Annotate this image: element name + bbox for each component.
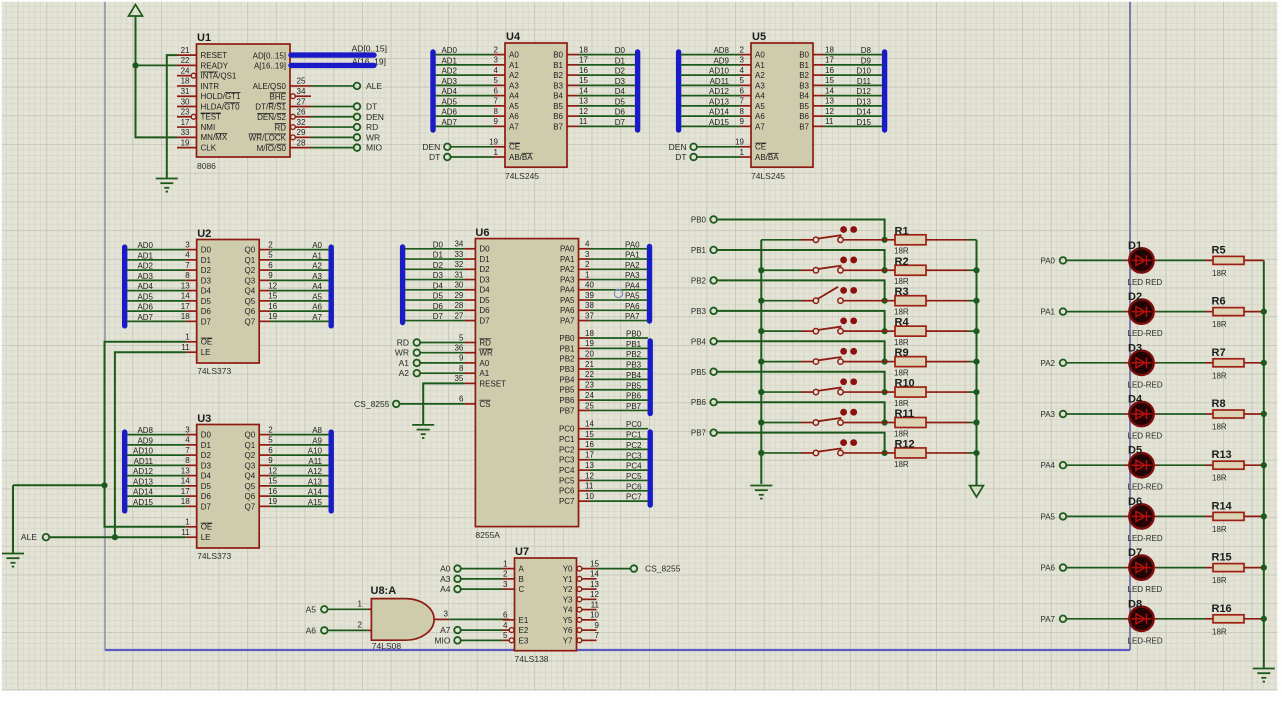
terminal DT (U4) <box>429 152 451 162</box>
svg-text:U1: U1 <box>197 32 211 44</box>
svg-text:74LS08: 74LS08 <box>372 641 402 651</box>
svg-text:CE: CE <box>755 143 766 152</box>
svg-text:18: 18 <box>579 45 588 54</box>
svg-text:2: 2 <box>268 425 273 434</box>
svg-text:AD15: AD15 <box>133 498 154 507</box>
svg-text:PB5: PB5 <box>559 386 575 395</box>
svg-text:18: 18 <box>825 45 834 54</box>
svg-text:A7: A7 <box>509 122 519 131</box>
svg-text:PC5: PC5 <box>626 472 642 481</box>
svg-text:18R: 18R <box>1212 627 1227 636</box>
svg-text:AD12: AD12 <box>709 87 730 96</box>
svg-text:R4: R4 <box>895 317 910 329</box>
svg-text:AD5: AD5 <box>137 292 153 301</box>
svg-text:AD14: AD14 <box>709 108 730 117</box>
svg-text:D1: D1 <box>201 441 212 450</box>
terminal ALE <box>354 81 383 91</box>
bus AD0..AD7 (U4 left) <box>430 52 435 130</box>
svg-text:Q6: Q6 <box>245 307 256 316</box>
wire MIO to U7 <box>461 639 503 641</box>
wires AD0-AD7 bus to U4 <box>435 46 494 127</box>
svg-text:4: 4 <box>185 251 190 260</box>
ground arrow (switch rail output) <box>970 486 984 497</box>
IC U5 (74LS245) body <box>751 31 813 181</box>
svg-text:D0: D0 <box>433 240 444 249</box>
svg-text:DEN: DEN <box>669 142 687 152</box>
svg-text:D10: D10 <box>856 67 871 76</box>
svg-text:PB6: PB6 <box>559 396 575 405</box>
svg-text:8086: 8086 <box>197 161 216 171</box>
svg-text:PB6: PB6 <box>626 392 642 401</box>
svg-text:6: 6 <box>740 86 745 95</box>
svg-text:D15: D15 <box>856 118 871 127</box>
U1 right pins (stubs, numbers, names) <box>249 77 311 153</box>
svg-text:PB7: PB7 <box>691 429 707 438</box>
svg-text:A1: A1 <box>399 358 410 368</box>
svg-text:AD10: AD10 <box>133 447 154 456</box>
terminal PB4 (switch bank) <box>691 337 717 346</box>
svg-text:A10: A10 <box>308 447 323 456</box>
svg-text:Y5: Y5 <box>563 616 573 625</box>
U1 bus pin names <box>253 51 286 70</box>
svg-text:AD6: AD6 <box>441 108 457 117</box>
svg-text:OE: OE <box>201 523 213 532</box>
U1 pins (stubs, numbers, names) <box>177 46 241 153</box>
bus PB[0..7] (U6 right) <box>648 341 653 414</box>
terminal PA3 (LED bank) <box>1040 410 1066 419</box>
svg-text:74LS245: 74LS245 <box>505 171 539 181</box>
sheet border (right edge) <box>1129 0 1131 650</box>
switch SW2 (PB1) <box>761 257 884 273</box>
svg-text:A6: A6 <box>509 112 519 121</box>
svg-text:1: 1 <box>358 600 363 609</box>
svg-text:14: 14 <box>579 86 588 95</box>
svg-text:D7: D7 <box>433 312 444 321</box>
svg-text:6: 6 <box>268 261 273 270</box>
resistor R14 18R <box>1154 500 1264 534</box>
svg-text:R3: R3 <box>895 286 909 298</box>
svg-text:2: 2 <box>585 260 590 269</box>
svg-text:PB2: PB2 <box>691 276 707 285</box>
terminal A7 (U7) <box>440 625 461 635</box>
svg-text:B1: B1 <box>799 61 809 70</box>
terminal RD (U6) <box>397 338 420 348</box>
svg-text:AD0: AD0 <box>137 241 153 250</box>
wire DT to U5 AB/BA <box>697 156 740 158</box>
svg-text:14: 14 <box>590 570 599 579</box>
terminal A3 (U7) <box>440 574 461 584</box>
svg-text:A2: A2 <box>312 262 322 271</box>
svg-text:9: 9 <box>494 117 499 126</box>
svg-text:AD3: AD3 <box>137 272 153 281</box>
terminal A2 (U6) <box>399 368 421 378</box>
LED D5 (LED-RED) <box>1128 445 1163 492</box>
svg-text:LED-RED: LED-RED <box>1128 483 1163 492</box>
wire A3 to U7 <box>461 578 503 580</box>
terminal PB2 (switch bank) <box>691 276 717 285</box>
wire PB4 to switch row <box>717 341 888 364</box>
wire A6 to U8:A pin2 <box>328 629 368 631</box>
svg-text:12: 12 <box>590 590 599 599</box>
svg-text:Y4: Y4 <box>563 606 573 615</box>
svg-text:7: 7 <box>494 97 499 106</box>
bus AD8..AD15 (U5 left) <box>676 52 681 130</box>
wire ALE terminal to U3.LE <box>49 536 185 538</box>
svg-text:AD[0..15]: AD[0..15] <box>352 44 387 54</box>
svg-text:12: 12 <box>268 466 277 475</box>
terminal WR (U6) <box>395 348 420 358</box>
svg-text:8: 8 <box>459 364 464 373</box>
svg-text:D4: D4 <box>1128 394 1143 406</box>
svg-text:PA6: PA6 <box>1040 564 1055 573</box>
svg-text:Y6: Y6 <box>563 626 573 635</box>
svg-text:74LS373: 74LS373 <box>197 366 231 376</box>
svg-text:PC6: PC6 <box>626 482 642 491</box>
svg-text:AD8: AD8 <box>713 46 729 55</box>
svg-text:18R: 18R <box>894 460 909 469</box>
wire ground riser to OE net <box>13 485 105 553</box>
svg-text:PA7: PA7 <box>625 312 640 321</box>
svg-text:11: 11 <box>579 117 588 126</box>
svg-text:D4: D4 <box>201 287 212 296</box>
svg-text:RD: RD <box>274 123 286 132</box>
junction +5V node <box>132 62 138 68</box>
svg-text:D0: D0 <box>201 431 212 440</box>
svg-text:PC3: PC3 <box>559 456 575 465</box>
AND gate U8:A (74LS08) <box>371 585 435 651</box>
terminal DT (U5) <box>675 152 697 162</box>
terminal A6 <box>306 625 328 635</box>
svg-text:AD5: AD5 <box>441 97 457 106</box>
svg-text:PA1: PA1 <box>1040 308 1055 317</box>
svg-text:R14: R14 <box>1212 500 1233 512</box>
resistor R15 18R <box>1154 552 1264 586</box>
svg-text:PA3: PA3 <box>1040 410 1055 419</box>
wire PB3 to switch row <box>717 311 888 334</box>
terminal DEN <box>354 112 384 122</box>
svg-text:5: 5 <box>459 333 464 342</box>
U6 pins (stubs, numbers, names) <box>454 240 594 506</box>
svg-text:19: 19 <box>735 138 744 147</box>
svg-text:PA5: PA5 <box>560 296 575 305</box>
svg-text:DT: DT <box>366 102 377 112</box>
svg-text:2: 2 <box>358 621 363 630</box>
svg-text:7: 7 <box>185 261 190 270</box>
svg-text:3: 3 <box>503 580 508 589</box>
terminal PB0 (switch bank) <box>691 216 717 225</box>
svg-text:8255A: 8255A <box>475 530 500 540</box>
svg-text:U2: U2 <box>197 228 211 240</box>
svg-text:4: 4 <box>503 621 508 630</box>
wires D8-D15 U5 to bus <box>824 46 883 127</box>
svg-text:WR/LOCK: WR/LOCK <box>249 134 287 143</box>
svg-text:D4: D4 <box>479 286 490 295</box>
svg-text:D6: D6 <box>201 492 212 501</box>
svg-text:D13: D13 <box>856 97 871 106</box>
terminal DEN (U5) <box>669 142 697 152</box>
svg-text:M/IO/S0: M/IO/S0 <box>257 144 287 153</box>
svg-text:PB1: PB1 <box>559 344 575 353</box>
svg-text:PA2: PA2 <box>560 265 575 274</box>
svg-text:B5: B5 <box>799 102 809 111</box>
svg-text:5: 5 <box>503 631 508 640</box>
svg-text:25: 25 <box>585 401 594 410</box>
svg-text:R12: R12 <box>895 438 915 450</box>
svg-text:D6: D6 <box>615 108 626 117</box>
svg-text:9: 9 <box>268 456 273 465</box>
svg-text:D2: D2 <box>201 451 212 460</box>
LED D3 (LED-RED) <box>1128 342 1163 389</box>
svg-text:17: 17 <box>181 487 190 496</box>
terminal PA0 (LED bank) <box>1040 256 1066 265</box>
wire U1 to terminal WR <box>311 136 354 138</box>
wire PB6 to switch row <box>717 402 888 425</box>
svg-text:A2: A2 <box>755 71 765 80</box>
svg-text:E1: E1 <box>519 616 529 625</box>
resistor R16 18R <box>1154 603 1264 637</box>
terminal CS_8255 (U6) <box>354 399 399 409</box>
svg-text:A0: A0 <box>440 564 451 574</box>
svg-text:D3: D3 <box>1128 342 1142 354</box>
IC U3 (74LS373) body <box>197 413 260 561</box>
U8:A pin stubs <box>358 600 450 631</box>
svg-text:D6: D6 <box>479 306 490 315</box>
svg-text:D0: D0 <box>615 46 626 55</box>
svg-text:AD11: AD11 <box>134 457 154 466</box>
terminal PA7 (LED bank) <box>1040 615 1066 624</box>
svg-text:PA4: PA4 <box>560 286 575 295</box>
resistor R10 18R <box>885 378 977 408</box>
svg-text:A5: A5 <box>306 604 317 614</box>
svg-text:15: 15 <box>825 76 834 85</box>
svg-text:INTA/QS1: INTA/QS1 <box>201 72 237 81</box>
wire PA0 to LED D1 <box>1066 259 1129 261</box>
svg-text:29: 29 <box>454 291 463 300</box>
svg-text:ALE: ALE <box>366 81 382 91</box>
svg-text:D5: D5 <box>433 292 444 301</box>
svg-text:23: 23 <box>585 381 594 390</box>
svg-text:9: 9 <box>740 117 745 126</box>
svg-text:4: 4 <box>585 240 590 249</box>
svg-text:A4: A4 <box>440 584 451 594</box>
svg-text:14: 14 <box>181 477 190 486</box>
svg-text:DEN: DEN <box>366 112 384 122</box>
svg-text:PB4: PB4 <box>691 337 707 346</box>
switch SW6 (PB5) <box>761 378 884 394</box>
wire PA5 to LED D6 <box>1066 515 1129 517</box>
switch SW4 (PB3) <box>761 317 884 333</box>
svg-text:D14: D14 <box>856 108 871 117</box>
svg-text:PC7: PC7 <box>626 493 642 502</box>
svg-text:R6: R6 <box>1212 296 1226 308</box>
svg-text:6: 6 <box>459 395 464 404</box>
resistor R5 18R <box>1154 244 1264 278</box>
svg-text:RESET: RESET <box>201 51 228 60</box>
svg-text:D5: D5 <box>1128 445 1142 457</box>
IC U6 (8255A) body <box>475 227 578 540</box>
wire RESET pin21 to ground <box>167 55 177 178</box>
svg-text:15: 15 <box>579 76 588 85</box>
svg-text:A11: A11 <box>308 457 322 466</box>
svg-text:AD4: AD4 <box>441 87 457 96</box>
svg-text:A7: A7 <box>312 313 322 322</box>
bus A8..A15 (U3 right) <box>329 432 334 511</box>
svg-text:D2: D2 <box>479 265 490 274</box>
wire U1 to terminal DEN <box>311 116 354 118</box>
svg-text:A5: A5 <box>755 102 765 111</box>
svg-text:18R: 18R <box>894 429 909 438</box>
svg-text:13: 13 <box>579 97 588 106</box>
wires AD8-AD15 bus to U5 <box>681 46 740 127</box>
resistor R7 18R <box>1154 347 1264 381</box>
svg-text:36: 36 <box>454 344 463 353</box>
LED D4 (LED RED) <box>1128 394 1163 441</box>
terminal DEN (U4) <box>422 142 450 152</box>
svg-text:21: 21 <box>181 46 190 55</box>
svg-text:14: 14 <box>825 86 834 95</box>
svg-text:A3: A3 <box>755 81 765 90</box>
svg-text:Q6: Q6 <box>245 492 256 501</box>
svg-text:22: 22 <box>181 56 190 65</box>
svg-text:4: 4 <box>740 66 745 75</box>
terminal CS_8255 (U7.Y0) <box>631 564 681 574</box>
svg-text:18R: 18R <box>1212 525 1227 534</box>
svg-text:Q0: Q0 <box>245 431 256 440</box>
svg-text:PB5: PB5 <box>626 381 642 390</box>
svg-text:PA5: PA5 <box>1040 512 1055 521</box>
svg-text:Q5: Q5 <box>245 482 256 491</box>
svg-text:LE: LE <box>201 533 211 542</box>
switch SW5 (PB4) <box>761 348 884 364</box>
ground (U1 reset) <box>156 179 178 193</box>
switch SW3 (PB2) <box>761 287 884 304</box>
svg-text:9: 9 <box>268 271 273 280</box>
wire PA3 to LED D4 <box>1066 413 1129 415</box>
IC U4 (74LS245) body <box>505 31 567 181</box>
svg-text:A1: A1 <box>479 369 489 378</box>
svg-text:AD3: AD3 <box>441 77 457 86</box>
U2 pins (stubs, numbers, names) <box>181 240 278 357</box>
bus PA[0..7] (U6 right) <box>647 247 652 322</box>
svg-text:6: 6 <box>503 611 508 620</box>
svg-text:18R: 18R <box>1212 576 1227 585</box>
svg-text:D3: D3 <box>201 276 212 285</box>
svg-text:8: 8 <box>494 107 499 116</box>
svg-text:B7: B7 <box>799 122 809 131</box>
svg-text:DEN/S2: DEN/S2 <box>257 113 286 122</box>
svg-text:MIO: MIO <box>434 635 450 645</box>
svg-text:1: 1 <box>185 333 190 342</box>
terminal WR <box>354 132 380 142</box>
svg-text:AD4: AD4 <box>137 282 153 291</box>
svg-text:3: 3 <box>494 56 499 65</box>
wire A2 to U6 <box>420 372 464 374</box>
terminal PB6 (switch bank) <box>691 398 717 407</box>
terminal PB1 (switch bank) <box>691 246 717 255</box>
svg-text:R10: R10 <box>895 378 915 390</box>
terminal MIO (U7) <box>434 635 460 645</box>
wire CS_8255 to U6.CS <box>400 403 465 405</box>
svg-text:12: 12 <box>825 107 834 116</box>
svg-text:PB0: PB0 <box>626 330 642 339</box>
resistor R11 18R <box>885 408 977 438</box>
svg-text:PB1: PB1 <box>691 246 707 255</box>
svg-text:D7: D7 <box>201 317 212 326</box>
svg-text:HLDA/GT0: HLDA/GT0 <box>201 102 241 111</box>
svg-text:INTR: INTR <box>201 82 220 91</box>
svg-text:D4: D4 <box>433 281 444 290</box>
U5 pins (stubs, numbers, names) <box>735 45 834 161</box>
bus D0..D7 (U4 right) <box>635 52 640 130</box>
svg-text:A3: A3 <box>440 574 451 584</box>
svg-text:PA1: PA1 <box>560 255 575 264</box>
svg-text:MIO: MIO <box>366 143 382 153</box>
svg-text:PA3: PA3 <box>560 275 575 284</box>
bus AD0..AD7 (U2 left) <box>122 247 127 326</box>
svg-text:74LS373: 74LS373 <box>197 551 231 561</box>
svg-text:11: 11 <box>181 528 190 537</box>
wire PA7 to LED D8 <box>1066 618 1129 620</box>
svg-text:PB1: PB1 <box>626 340 642 349</box>
svg-text:PA4: PA4 <box>625 281 640 290</box>
svg-text:Y3: Y3 <box>563 595 573 604</box>
svg-text:1: 1 <box>503 559 508 568</box>
svg-text:Y1: Y1 <box>563 575 573 584</box>
svg-text:18R: 18R <box>1212 423 1227 432</box>
svg-text:12: 12 <box>585 471 594 480</box>
svg-text:A2: A2 <box>509 71 519 80</box>
svg-text:D4: D4 <box>615 87 626 96</box>
svg-text:DT: DT <box>675 152 686 162</box>
svg-text:D1: D1 <box>433 251 444 260</box>
wires AD0-AD7 bus to U2 <box>127 241 186 322</box>
LED D7 (LED RED) <box>1128 547 1163 594</box>
svg-text:D3: D3 <box>201 461 212 470</box>
svg-text:Q7: Q7 <box>245 502 256 511</box>
svg-text:PB3: PB3 <box>691 307 707 316</box>
svg-text:2: 2 <box>503 570 508 579</box>
svg-text:23: 23 <box>181 108 190 117</box>
svg-text:74LS245: 74LS245 <box>751 171 785 181</box>
wire U6.RESET to ground <box>423 383 464 425</box>
wire A1 to U6 <box>420 362 464 364</box>
svg-text:D5: D5 <box>479 296 490 305</box>
svg-text:A0: A0 <box>312 241 322 250</box>
svg-text:D7: D7 <box>479 316 490 325</box>
terminal RD <box>354 122 379 132</box>
wire PA4 to LED D5 <box>1066 464 1129 466</box>
wires AD8-AD15 bus to U3 <box>127 426 186 507</box>
svg-text:CS: CS <box>479 400 490 409</box>
svg-text:24: 24 <box>585 391 594 400</box>
U4 pins (stubs, numbers, names) <box>489 45 588 161</box>
svg-text:Y2: Y2 <box>563 585 573 594</box>
svg-text:AD[0..15]: AD[0..15] <box>253 51 286 60</box>
svg-text:2: 2 <box>268 240 273 249</box>
bus label AD[0..15] <box>352 44 387 54</box>
bus PC[0..7] (U6 right) <box>648 432 653 505</box>
terminal A5 <box>306 604 328 614</box>
svg-text:D8: D8 <box>1128 598 1142 610</box>
svg-text:R2: R2 <box>895 256 909 268</box>
svg-text:6: 6 <box>268 446 273 455</box>
svg-text:PB0: PB0 <box>691 216 707 225</box>
svg-text:B3: B3 <box>799 81 809 90</box>
svg-text:9: 9 <box>595 621 600 630</box>
terminal PA5 (LED bank) <box>1040 512 1066 521</box>
svg-text:PC3: PC3 <box>626 451 642 460</box>
svg-text:B2: B2 <box>799 71 809 80</box>
